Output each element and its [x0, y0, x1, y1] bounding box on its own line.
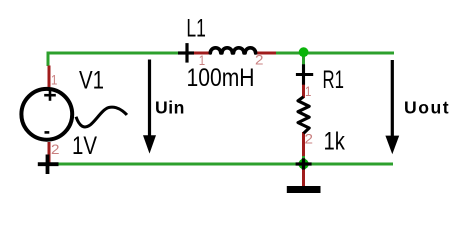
svg-text:1k: 1k [324, 127, 346, 155]
svg-text:100mH: 100mH [187, 64, 255, 92]
svg-text:R1: R1 [323, 66, 344, 94]
svg-text:1: 1 [199, 52, 206, 68]
svg-text:2: 2 [51, 141, 60, 157]
svg-text:2: 2 [255, 52, 264, 68]
svg-text:Uout: Uout [404, 98, 450, 118]
svg-text:1: 1 [305, 83, 312, 99]
svg-text:2: 2 [305, 131, 314, 147]
svg-text:1V: 1V [72, 132, 97, 160]
svg-text:L1: L1 [186, 14, 206, 42]
svg-text:1: 1 [51, 72, 58, 88]
svg-text:Uin: Uin [155, 98, 185, 118]
svg-text:V1: V1 [79, 67, 104, 95]
